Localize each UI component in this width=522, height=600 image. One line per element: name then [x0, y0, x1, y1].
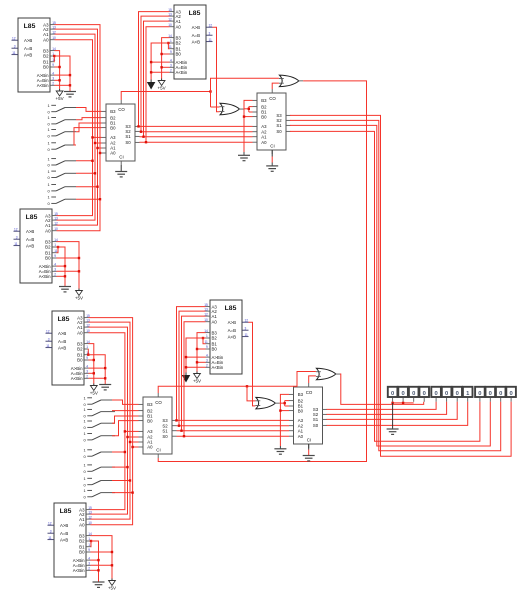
U7 pin S1 stub — [135, 135, 140, 137]
indicator X9 (logic level display "0") — [475, 387, 485, 402]
junction bus/U7.A3 — [91, 136, 93, 138]
OR2 output stub — [298, 80, 303, 82]
wire U10.S1 to indicator X7 — [327, 402, 458, 420]
svg-text:A<B: A<B — [26, 243, 34, 248]
U6 pin A1 stub — [86, 518, 91, 520]
U10 pin CI stub — [308, 444, 310, 448]
svg-text:A1: A1 — [45, 223, 51, 228]
svg-text:3: 3 — [245, 326, 247, 330]
U10 pin A2 stub — [289, 425, 294, 427]
svg-text:S0: S0 — [125, 140, 131, 145]
U9 pin S3 stub — [172, 419, 177, 421]
junction U6.A&lt;Bin/GND rail — [97, 569, 99, 571]
ground at U8.CI — [266, 166, 278, 171]
U1 pin AlBin stub — [50, 84, 55, 86]
svg-text:CO: CO — [155, 400, 162, 405]
svg-text:4: 4 — [54, 262, 56, 266]
wire U6.B3 to +5V rail — [91, 536, 113, 579]
svg-text:A<B: A<B — [192, 39, 200, 44]
U6 output AgB stub — [48, 524, 55, 526]
X5 pin stub — [435, 398, 437, 402]
wire U10.S3 to indicator X5 — [327, 402, 437, 410]
U2 pin A1 stub — [170, 20, 175, 22]
junction U3.A&gt;Bin/GND rail — [64, 265, 66, 267]
svg-text:4: 4 — [206, 353, 208, 357]
svg-text:A<Bin: A<Bin — [39, 274, 51, 279]
svg-text:A1: A1 — [176, 19, 182, 24]
wire U5.A&lt;Bin to GND rail — [186, 366, 206, 368]
wire OR3 output — [280, 402, 285, 404]
svg-text:4: 4 — [170, 58, 172, 62]
svg-text:L85: L85 — [60, 508, 72, 515]
U3 pin A2 stub — [52, 219, 57, 221]
junction U4.B2/B1 — [87, 354, 89, 356]
U1 output AeB stub — [12, 47, 19, 49]
svg-text:12: 12 — [12, 36, 16, 40]
svg-text:3: 3 — [14, 44, 16, 48]
wire U2.B0 to +5V rail — [162, 53, 170, 55]
svg-text:B3: B3 — [176, 35, 182, 40]
wire U5.A2 down to sum net — [179, 311, 206, 426]
U4 pin B1 stub — [84, 354, 89, 356]
svg-text:0: 0 — [509, 391, 512, 397]
svg-text:3: 3 — [88, 562, 90, 566]
wire SW9 to U9.B3 — [112, 400, 139, 404]
junction bus/SW5 — [91, 160, 93, 162]
svg-text:S0: S0 — [276, 129, 282, 134]
wire U3.B3 to +5V rail — [57, 242, 80, 289]
U4 pin A3 stub — [84, 317, 89, 319]
svg-text:B0: B0 — [77, 358, 83, 363]
wire U4.A1 bus vertical x=127.5 — [89, 327, 128, 514]
wire SW3 to U7.B1 — [76, 123, 102, 132]
wire U5.A3 down to sum net — [177, 307, 206, 421]
svg-text:B0: B0 — [176, 52, 182, 57]
wire U4.A3 bus vertical x=132.6 — [89, 318, 133, 525]
wire OR2 output to U9.CI (carry chain) — [158, 81, 366, 462]
junction bus/U9.A2 — [126, 436, 128, 438]
junction U3.B1/B2 — [57, 246, 59, 248]
wire bus tap to U9.A0 — [133, 446, 139, 448]
OR1 output stub — [239, 108, 244, 110]
wire to U10.B1 — [285, 405, 289, 407]
switch SW4 — [48, 141, 77, 152]
wire U4.B1 to GND rail — [89, 355, 106, 385]
U4 output AeB stub — [46, 340, 53, 342]
wire U7.CI to ground — [120, 165, 122, 172]
svg-text:4: 4 — [52, 71, 54, 75]
U3 output AeB stub — [14, 238, 21, 240]
svg-text:S1: S1 — [276, 123, 282, 128]
svg-text:B0: B0 — [43, 65, 49, 70]
svg-text:4: 4 — [86, 364, 88, 368]
svg-text:2: 2 — [86, 375, 88, 379]
wire U1.B2 to GND rail — [55, 56, 71, 92]
svg-text:A>B: A>B — [58, 331, 66, 336]
adder U8 (4-bit full adder) — [253, 89, 291, 154]
U10 pin A0 stub — [289, 435, 294, 437]
adder U7 (4-bit full adder) — [102, 100, 140, 165]
U4 pin AgBin stub — [84, 367, 89, 369]
U9 pin S0 stub — [172, 435, 177, 437]
junction U1.A=Bin/+5V rail — [58, 79, 60, 81]
U7 pin B3 stub — [102, 110, 107, 112]
wire bus tap to U7.A3 — [93, 136, 102, 138]
svg-text:A>B: A>B — [60, 523, 68, 528]
U6 pin AlBin stub — [86, 569, 91, 571]
svg-text:A<Bin: A<Bin — [71, 376, 83, 381]
junction U2.A1/sum net — [142, 136, 144, 138]
U8.B ground lead — [243, 152, 245, 155]
svg-text:11: 11 — [14, 242, 18, 246]
indicator X6 (logic level display "0") — [442, 387, 452, 402]
junction U5.B0/+5V rail — [196, 348, 198, 350]
U8.CI black lead — [271, 150, 273, 157]
U2 output AgB stub — [206, 26, 213, 28]
X6 pin stub — [446, 398, 448, 402]
U8 pin A0 stub — [253, 141, 258, 143]
svg-text:B1: B1 — [212, 341, 218, 346]
U1 pin A1 stub — [50, 33, 55, 35]
U10.B ground lead — [279, 446, 281, 449]
OR gate OR2 — [279, 75, 303, 87]
wire SW7 to bus — [76, 186, 98, 188]
svg-text:A1: A1 — [261, 134, 267, 139]
U3 pin AeBin stub — [52, 270, 57, 272]
U2 pin A3 stub — [170, 11, 175, 13]
U10 pin S2 stub — [323, 413, 328, 415]
svg-text:0: 0 — [456, 391, 459, 397]
U5 output AlB stub — [242, 336, 249, 338]
svg-text:A1: A1 — [298, 428, 304, 433]
OR4 input stubs — [316, 371, 321, 373]
wire U1.A&lt;Bin to GND rail — [55, 84, 71, 86]
ground at U3 — [59, 287, 71, 292]
svg-text:12: 12 — [245, 318, 249, 322]
wire U2.B2 to GND rail — [151, 43, 169, 80]
U4 pin B2 stub — [84, 348, 89, 350]
svg-text:A>B: A>B — [26, 229, 34, 234]
wire U9.S0 to U10.A0 — [177, 435, 290, 437]
OR gate OR1 — [220, 103, 244, 115]
junction U1.B1/B2 — [53, 55, 55, 57]
wire SW4 to U7.B0 — [74, 128, 102, 145]
ground (arrow) at U2 — [148, 80, 155, 89]
OR4 output stub — [335, 373, 340, 375]
wire SW6 to bus — [76, 172, 95, 174]
wire U7.S0 to U8.A0 — [140, 141, 253, 143]
comparator U5 (L85) — [204, 300, 248, 374]
X1 pin stub — [392, 398, 394, 402]
svg-text:3: 3 — [52, 77, 54, 81]
svg-text:CI: CI — [307, 437, 311, 442]
svg-text:L85: L85 — [225, 305, 237, 312]
wire bus tap to U9.A3 — [125, 430, 139, 432]
indicator X1 (logic level display "0") — [388, 387, 398, 402]
comparator U1 (L85) — [12, 18, 56, 92]
U10 pin A3 stub — [289, 419, 294, 421]
svg-text:A=B: A=B — [26, 237, 34, 242]
svg-text:12: 12 — [209, 23, 213, 27]
switch SW15 — [84, 476, 116, 487]
junction U6.A&gt;Bin/GND rail — [97, 559, 99, 561]
U3 pin A3 stub — [52, 215, 57, 217]
svg-text:9: 9 — [52, 63, 54, 67]
wire U4.A0 bus vertical x=124.9 — [89, 333, 125, 510]
U8 pin A3 stub — [253, 125, 258, 127]
switch SW5 — [48, 156, 77, 167]
U2 output AeB stub — [206, 34, 213, 36]
junction U5.A0/sum net — [183, 435, 185, 437]
svg-text:A=B: A=B — [60, 531, 68, 536]
wire CO net to OR2 upper input — [211, 78, 279, 107]
U3 pin AgBin stub — [52, 265, 57, 267]
svg-text:B3: B3 — [79, 533, 85, 538]
wire SW1 to U7.B3 — [76, 108, 102, 112]
U7 pin A3 stub — [102, 136, 107, 138]
wire U5.A0 down to sum net — [184, 322, 206, 437]
wire U3.A&gt;Bin to GND rail — [57, 265, 66, 267]
svg-text:B1: B1 — [79, 544, 85, 549]
U9 pin B1 stub — [139, 415, 144, 417]
svg-text:0: 0 — [434, 391, 437, 397]
U9 pin B0 stub — [139, 420, 144, 422]
wire U7.CO up and right — [121, 92, 210, 101]
wire to U8.B2 — [249, 106, 253, 108]
wire U4.B2 join B1 — [87, 349, 89, 355]
junction bus/SW14 — [126, 466, 128, 468]
junction U5.A&lt;Bin/GND rail — [185, 366, 187, 368]
wire U2.A3 down to sum net — [139, 12, 170, 127]
svg-text:1: 1 — [170, 39, 172, 43]
U10.CI black lead — [308, 444, 310, 450]
wire SW13 to bus — [112, 451, 125, 453]
wire U5.A1 down to sum net — [182, 316, 206, 431]
wire U2.A2 down to sum net — [141, 16, 170, 132]
wire U4.A2 bus vertical x=130.0 — [89, 322, 131, 519]
wire U6.A&lt;Bin to GND rail — [91, 569, 99, 571]
svg-text:1: 1 — [54, 243, 56, 247]
svg-text:L85: L85 — [26, 214, 38, 221]
svg-text:A1: A1 — [77, 325, 83, 330]
svg-text:0: 0 — [401, 391, 404, 397]
wire U2.A&lt;Bin to GND rail — [151, 71, 169, 73]
wire U7.S1 to U8.A1 — [140, 136, 253, 138]
wire U2.A=Bin to +5V rail — [162, 66, 170, 68]
wire X1-X2-X3 tie — [393, 402, 414, 404]
comparator U3 (L85) — [14, 209, 58, 283]
indicator X8 (logic level display "1") — [463, 387, 473, 402]
OR gate OR3 — [255, 397, 279, 409]
U2 pin A0 stub — [170, 26, 175, 28]
U3 pin B3 stub — [52, 241, 57, 243]
U8 pin B1 stub — [253, 111, 258, 113]
switch SW9 — [84, 396, 116, 407]
wire OR4 output to indicator X4 — [340, 374, 424, 404]
switch SW10 — [84, 407, 116, 418]
wire U8.CO to OR2 lower input — [272, 83, 279, 89]
switch SW14 — [84, 463, 116, 474]
U10 pin B3 stub — [289, 393, 294, 395]
U10 pin S3 stub — [323, 408, 328, 410]
wire to U8.B1 — [249, 111, 253, 113]
U2 pin AgBin stub — [170, 61, 175, 63]
U5 pin A3 stub — [206, 306, 211, 308]
OR gate OR4 — [316, 368, 340, 380]
junction OR3 output split — [284, 402, 286, 404]
wire U1.B1 join B2 — [53, 56, 55, 62]
wire U7.S3 to U8.A3 — [140, 125, 253, 127]
svg-text:S0: S0 — [313, 423, 319, 428]
U9 pin B2 stub — [139, 410, 144, 412]
wire U8.S2 to indicator X11 — [290, 120, 501, 450]
svg-text:11: 11 — [48, 536, 52, 540]
svg-text:12: 12 — [14, 227, 18, 231]
U2 output AlB stub — [206, 41, 213, 43]
wire X1 net to ground (black lead) — [392, 403, 394, 429]
svg-text:0: 0 — [445, 391, 448, 397]
U1 output AgB stub — [12, 39, 19, 41]
wire U2.B3 to +5V rail — [162, 38, 170, 79]
wire U9.S3 to U10.A3 — [177, 419, 290, 421]
svg-text:B1: B1 — [77, 352, 83, 357]
switch SW16 — [84, 488, 116, 499]
adder U10 (4-bit full adder) — [289, 383, 327, 448]
U4 output AgB stub — [46, 332, 53, 334]
svg-text:B0: B0 — [147, 418, 153, 423]
U9 pin A1 stub — [139, 441, 144, 443]
svg-text:A=B: A=B — [192, 33, 200, 38]
U7 pin B2 stub — [102, 117, 107, 119]
U10 pin B1 stub — [289, 405, 294, 407]
svg-text:11: 11 — [12, 51, 16, 55]
junction U2.A2/sum net — [140, 131, 142, 133]
U1 pin B0 stub — [50, 66, 55, 68]
svg-text:+5V: +5V — [56, 96, 64, 101]
switch SW11 — [84, 419, 116, 430]
U6 pin A0 stub — [86, 524, 91, 526]
indicator X12 (logic level display "0") — [506, 387, 516, 402]
svg-text:B2: B2 — [77, 347, 83, 352]
svg-text:11: 11 — [245, 333, 249, 337]
U7 pin CO stub — [120, 100, 122, 104]
wire U3.A=Bin to +5V rail — [57, 270, 80, 272]
U8 pin S1 stub — [286, 124, 291, 126]
U4 pin B3 stub — [84, 343, 89, 345]
svg-text:A1: A1 — [212, 314, 218, 319]
indicator X10 (logic level display "0") — [486, 387, 496, 402]
junction U6.A=Bin/+5V rail — [111, 564, 113, 566]
svg-text:CI: CI — [119, 154, 123, 159]
wire U4.A&lt;Bin to GND rail — [89, 377, 106, 379]
junction bus/SW13 — [124, 451, 126, 453]
wire U8.CI to ground — [271, 157, 273, 163]
indicator X5 (logic level display "0") — [431, 387, 441, 402]
U5 pin A0 stub — [206, 321, 211, 323]
U10 pin A1 stub — [289, 430, 294, 432]
U6 pin B2 stub — [86, 540, 91, 542]
+5V supply at U6 — [108, 579, 116, 591]
wire U4.B0 to +5V rail — [89, 359, 94, 361]
wire U5.A&gt;Bin to GND rail — [186, 356, 206, 358]
svg-text:A0: A0 — [43, 37, 49, 42]
wire U5.B2 to GND rail — [186, 338, 206, 373]
svg-text:B3: B3 — [110, 109, 116, 114]
junction U5.A3/sum net — [175, 419, 177, 421]
svg-text:A0: A0 — [298, 434, 304, 439]
U1 pin A0 stub — [50, 39, 55, 41]
svg-text:S1: S1 — [162, 428, 168, 433]
wire U8.S1 to indicator X10 — [290, 125, 490, 446]
svg-text:3: 3 — [48, 337, 50, 341]
svg-text:L85: L85 — [24, 23, 36, 30]
wire U2.A&gt;Bin to GND rail — [151, 61, 169, 63]
svg-text:B3: B3 — [77, 341, 83, 346]
adder U9 (4-bit full adder) — [139, 393, 177, 458]
U8 pin CO stub — [271, 89, 273, 93]
svg-text:A<B: A<B — [60, 537, 68, 542]
wire U9.S1 to U10.A1 — [177, 430, 290, 432]
junction U2.A=Bin/+5V rail — [160, 66, 162, 68]
svg-text:B3: B3 — [43, 48, 49, 53]
wire U8.B3 to ground rail — [244, 100, 253, 152]
U6 pin AeBin stub — [86, 564, 91, 566]
X8 pin stub — [467, 398, 469, 402]
+5V supply at U5 — [193, 372, 201, 384]
svg-text:3: 3 — [206, 359, 208, 363]
svg-text:B2: B2 — [298, 398, 304, 403]
U5 pin B1 stub — [206, 343, 211, 345]
junction U9.CO net — [246, 385, 248, 387]
svg-text:3: 3 — [209, 31, 211, 35]
OR2 input stubs — [279, 78, 284, 80]
svg-text:A0: A0 — [212, 319, 218, 324]
U9 pin CI stub — [157, 454, 159, 458]
svg-text:+5V: +5V — [158, 86, 166, 91]
U5 pin AgBin stub — [206, 356, 211, 358]
switch SW2 — [48, 115, 77, 126]
wire U5.B0 to +5V rail — [197, 348, 206, 350]
U6 pin A2 stub — [86, 513, 91, 515]
switch SW6 — [48, 169, 77, 180]
U5 pin A2 stub — [206, 310, 211, 312]
junction bus/U9.A1 — [129, 441, 131, 443]
U8 pin A1 stub — [253, 136, 258, 138]
U8 pin S2 stub — [286, 119, 291, 121]
svg-text:B2: B2 — [147, 408, 153, 413]
junction U2.A3/sum net — [137, 125, 139, 127]
svg-text:B0: B0 — [110, 125, 116, 130]
junction bus/SW7 — [96, 186, 98, 188]
junction X1 tie — [391, 402, 393, 404]
svg-text:S0: S0 — [162, 434, 168, 439]
wire U6.B1 join B2 — [90, 541, 93, 547]
svg-text:A=B: A=B — [58, 339, 66, 344]
U5 pin A1 stub — [206, 315, 211, 317]
svg-text:A=B: A=B — [24, 46, 32, 51]
wire U1.A1 bus vertical x=95.0 — [55, 34, 96, 220]
svg-text:CI: CI — [270, 143, 274, 148]
wire U10.CI to ground — [308, 450, 310, 456]
junction U3.A&lt;Bin/GND rail — [64, 275, 66, 277]
junction U5.A=Bin/+5V rail — [196, 361, 198, 363]
junction OR1 output split — [248, 108, 250, 110]
wire OR3 out split vertical — [284, 401, 286, 406]
junction U2.A0/sum net — [145, 141, 147, 143]
X2 pin stub — [402, 398, 404, 402]
svg-text:1: 1 — [206, 334, 208, 338]
wire SW12 to U9.B0 — [112, 421, 139, 436]
